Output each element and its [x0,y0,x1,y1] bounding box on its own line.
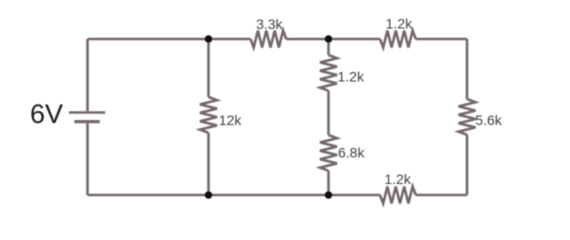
wire left upper segment (battery positive lead) [86,39,89,111]
resistor R2 1.2k (top right horizontal) [380,31,416,48]
wire top-left segment [88,38,251,41]
battery V1 6V positive plate [69,111,105,114]
svg-text:12k: 12k [219,112,243,128]
resistor R4 1.2k (bottom horizontal) [380,187,416,204]
battery V1 6V negative plate [74,120,99,123]
svg-text:1.2k: 1.2k [338,68,365,84]
node A (junction top, 12k branch) [205,35,213,43]
resistor R6 1.2k (middle vertical) [320,55,337,91]
svg-text:6V: 6V [30,99,63,129]
svg-text:1.2k: 1.2k [386,15,413,31]
wire bottom-right segment [416,194,467,197]
resistor R7 6.8k (middle vertical) [320,135,337,171]
wire top-middle segment [286,38,380,41]
resistor R3 5.6k (right vertical) [459,99,476,135]
node C (junction bottom, 12k branch) [205,191,213,199]
wire right upper segment [466,39,469,99]
wire left lower segment (battery negative lead) [86,123,89,195]
wire middle branch bottom lead [327,171,330,195]
resistor R1 3.3k (top left horizontal) [251,31,287,48]
wire right lower segment [466,135,469,195]
wire middle branch center lead [327,91,330,135]
svg-text:3.3k: 3.3k [256,16,283,32]
node D (junction bottom, middle branch) [325,191,333,199]
svg-text:5.6k: 5.6k [475,112,502,128]
svg-text:6.8k: 6.8k [338,145,365,161]
wire bottom-middle segment [209,194,381,197]
resistor R5 12k (vertical) [200,97,217,133]
wire middle-left branch lower [207,133,210,195]
wire bottom-left segment [88,194,209,197]
svg-text:1.2k: 1.2k [384,171,411,187]
node B (junction top, middle branch) [325,35,333,43]
wire top-right segment [416,38,467,41]
wire middle-left branch upper [207,39,210,97]
wire middle branch top lead [327,39,330,55]
